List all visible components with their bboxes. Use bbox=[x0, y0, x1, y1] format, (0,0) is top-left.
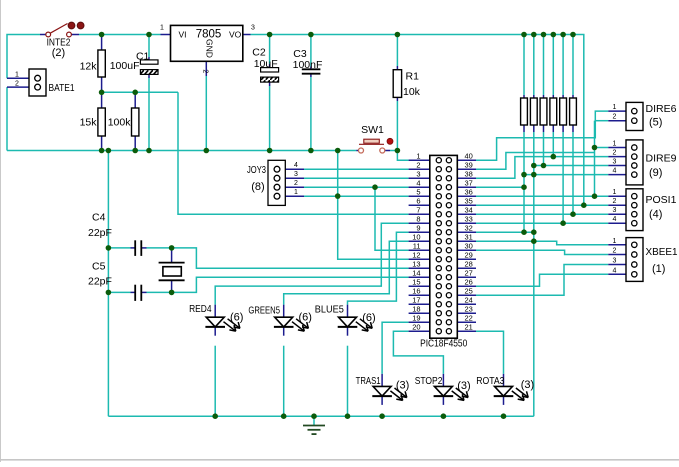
svg-text:1: 1 bbox=[613, 189, 617, 196]
svg-text:2: 2 bbox=[416, 161, 420, 170]
svg-text:3: 3 bbox=[613, 258, 617, 265]
svg-text:22pF: 22pF bbox=[88, 227, 112, 239]
svg-text:2: 2 bbox=[294, 180, 298, 187]
svg-text:22pF: 22pF bbox=[88, 276, 112, 288]
svg-text:33: 33 bbox=[465, 215, 473, 224]
svg-text:9: 9 bbox=[416, 224, 420, 233]
svg-text:22: 22 bbox=[465, 314, 473, 323]
svg-text:(9): (9) bbox=[649, 167, 662, 179]
svg-text:(4): (4) bbox=[649, 209, 662, 221]
svg-text:30: 30 bbox=[465, 242, 473, 251]
svg-text:2: 2 bbox=[613, 150, 617, 157]
svg-text:37: 37 bbox=[465, 179, 473, 188]
svg-text:32: 32 bbox=[465, 224, 473, 233]
svg-text:PIC18F4550: PIC18F4550 bbox=[420, 338, 467, 350]
svg-text:BATE1: BATE1 bbox=[49, 82, 75, 94]
svg-text:26: 26 bbox=[465, 278, 473, 287]
svg-text:7: 7 bbox=[416, 206, 420, 215]
svg-text:VO: VO bbox=[229, 29, 242, 39]
svg-text:GREEN5: GREEN5 bbox=[248, 305, 280, 317]
svg-text:2: 2 bbox=[613, 114, 617, 121]
svg-text:6: 6 bbox=[416, 197, 420, 206]
svg-text:18: 18 bbox=[412, 305, 420, 314]
svg-text:11: 11 bbox=[413, 242, 421, 251]
svg-text:1: 1 bbox=[160, 25, 164, 32]
svg-text:(6): (6) bbox=[230, 312, 243, 324]
svg-text:3: 3 bbox=[613, 159, 617, 166]
svg-text:(3): (3) bbox=[457, 380, 470, 392]
svg-text:4: 4 bbox=[613, 168, 617, 175]
svg-text:(1): (1) bbox=[652, 263, 665, 275]
svg-text:2: 2 bbox=[613, 248, 617, 255]
svg-text:21: 21 bbox=[465, 323, 473, 332]
svg-text:SW1: SW1 bbox=[361, 124, 384, 136]
svg-text:(3): (3) bbox=[396, 380, 409, 392]
svg-text:1: 1 bbox=[613, 238, 617, 245]
svg-text:27: 27 bbox=[465, 269, 473, 278]
svg-text:20: 20 bbox=[412, 323, 420, 332]
svg-text:2: 2 bbox=[201, 69, 208, 73]
svg-text:TRAS1: TRAS1 bbox=[356, 375, 381, 387]
svg-text:15k: 15k bbox=[80, 117, 98, 129]
svg-text:100nF: 100nF bbox=[293, 59, 323, 71]
svg-text:POSI1: POSI1 bbox=[646, 194, 677, 206]
svg-text:(5): (5) bbox=[649, 117, 662, 129]
svg-text:17: 17 bbox=[412, 296, 420, 305]
svg-text:24: 24 bbox=[465, 296, 473, 305]
svg-text:8: 8 bbox=[416, 215, 420, 224]
svg-text:VI: VI bbox=[179, 29, 187, 39]
svg-text:29: 29 bbox=[465, 251, 473, 260]
svg-text:14: 14 bbox=[412, 269, 420, 278]
svg-text:(2): (2) bbox=[52, 47, 65, 59]
svg-text:100k: 100k bbox=[108, 117, 132, 129]
svg-text:1: 1 bbox=[416, 152, 420, 161]
svg-text:ROTA3: ROTA3 bbox=[476, 375, 504, 387]
svg-text:(3): (3) bbox=[521, 379, 534, 391]
svg-text:35: 35 bbox=[465, 197, 473, 206]
svg-text:13: 13 bbox=[412, 260, 420, 269]
svg-text:4: 4 bbox=[613, 216, 617, 223]
svg-text:DIRE9: DIRE9 bbox=[646, 153, 677, 165]
svg-text:C2: C2 bbox=[252, 47, 266, 59]
svg-text:40: 40 bbox=[465, 152, 473, 161]
svg-text:GND: GND bbox=[205, 39, 215, 58]
svg-text:19: 19 bbox=[412, 314, 420, 323]
svg-text:4: 4 bbox=[416, 179, 420, 188]
svg-text:10: 10 bbox=[412, 233, 420, 242]
svg-text:39: 39 bbox=[465, 161, 473, 170]
svg-text:1: 1 bbox=[15, 72, 19, 79]
svg-text:16: 16 bbox=[412, 287, 420, 296]
svg-text:DIRE6: DIRE6 bbox=[646, 103, 677, 115]
svg-text:(8): (8) bbox=[251, 181, 264, 193]
svg-text:28: 28 bbox=[465, 260, 473, 269]
svg-text:3: 3 bbox=[613, 207, 617, 214]
svg-text:12k: 12k bbox=[80, 61, 98, 73]
svg-text:10k: 10k bbox=[403, 86, 421, 98]
svg-text:12: 12 bbox=[412, 251, 420, 260]
svg-text:34: 34 bbox=[465, 206, 473, 215]
svg-text:3: 3 bbox=[416, 170, 420, 179]
svg-text:15: 15 bbox=[412, 278, 420, 287]
svg-text:100uF: 100uF bbox=[110, 60, 140, 72]
svg-text:JOY3: JOY3 bbox=[247, 164, 266, 176]
svg-text:1: 1 bbox=[613, 141, 617, 148]
svg-text:3: 3 bbox=[294, 171, 298, 178]
svg-text:C5: C5 bbox=[92, 261, 106, 273]
svg-text:STOP2: STOP2 bbox=[415, 375, 443, 387]
svg-text:4: 4 bbox=[294, 162, 298, 169]
svg-text:5: 5 bbox=[416, 188, 420, 197]
svg-text:R1: R1 bbox=[406, 71, 420, 83]
svg-text:XBEE1: XBEE1 bbox=[646, 246, 678, 258]
svg-text:23: 23 bbox=[465, 305, 473, 314]
svg-text:25: 25 bbox=[465, 287, 473, 296]
svg-text:1: 1 bbox=[613, 104, 617, 111]
svg-text:(6): (6) bbox=[362, 312, 375, 324]
svg-text:31: 31 bbox=[465, 233, 473, 242]
svg-text:2: 2 bbox=[15, 80, 19, 87]
svg-text:1: 1 bbox=[294, 189, 298, 196]
svg-text:3: 3 bbox=[251, 25, 255, 32]
svg-text:10uF: 10uF bbox=[254, 58, 278, 70]
svg-text:38: 38 bbox=[465, 170, 473, 179]
svg-text:36: 36 bbox=[465, 188, 473, 197]
svg-text:RED4: RED4 bbox=[189, 303, 212, 315]
svg-text:4: 4 bbox=[613, 267, 617, 274]
svg-text:2: 2 bbox=[613, 198, 617, 205]
svg-text:BLUE5: BLUE5 bbox=[315, 304, 344, 316]
svg-text:C4: C4 bbox=[92, 212, 106, 224]
svg-text:(6): (6) bbox=[298, 312, 311, 324]
